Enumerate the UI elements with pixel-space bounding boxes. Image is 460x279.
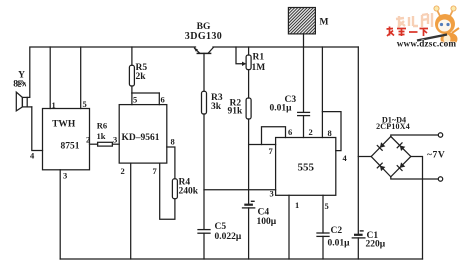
- microphone M: [288, 8, 315, 113]
- svg-text:C2: C2: [331, 226, 343, 236]
- label 8 ohm chinese glyph: [18, 81, 26, 86]
- svg-text:6: 6: [161, 95, 165, 105]
- svg-text:3: 3: [63, 171, 67, 181]
- svg-text:5: 5: [83, 99, 87, 109]
- capacitor C2 0.01u: [317, 233, 329, 259]
- wire AC bottom terminal: [391, 177, 439, 179]
- wire TWH pin 3 to bottom rail: [59, 170, 61, 259]
- IC U2 KD-9561 box: [119, 105, 167, 164]
- svg-text:2: 2: [121, 166, 125, 176]
- wire bottom rail: [60, 258, 422, 260]
- svg-text:KD–9561: KD–9561: [122, 133, 160, 143]
- svg-text:1k: 1k: [97, 131, 106, 141]
- wire KD pin 2 to bottom rail: [130, 163, 132, 259]
- resistor R4 240k: [167, 147, 178, 199]
- svg-text:2k: 2k: [136, 72, 147, 82]
- terminal circle top: [438, 133, 442, 137]
- diode D4 bottom-right: [397, 162, 405, 170]
- svg-text:3k: 3k: [211, 102, 222, 112]
- svg-text:4: 4: [343, 153, 348, 163]
- capacitor C3 0.01u: [298, 112, 310, 137]
- watermark red chinese text: [387, 27, 429, 37]
- diode D3 bottom-left: [377, 163, 385, 171]
- svg-text:555: 555: [297, 162, 314, 174]
- svg-text:0.01μ: 0.01μ: [328, 239, 351, 249]
- svg-text:3: 3: [113, 135, 117, 145]
- svg-text:1: 1: [52, 100, 56, 110]
- svg-text:1: 1: [295, 200, 299, 210]
- svg-text:6: 6: [288, 127, 292, 137]
- svg-text:TWH: TWH: [52, 120, 76, 130]
- svg-text:240k: 240k: [179, 187, 199, 197]
- wire bridge left vertex link: [358, 156, 371, 158]
- svg-text:R1: R1: [253, 53, 265, 63]
- wire KD pin5-pin6 loop: [131, 93, 133, 105]
- svg-text:5: 5: [325, 201, 329, 211]
- svg-text:1M: 1M: [252, 63, 266, 73]
- svg-text:R6: R6: [97, 121, 107, 131]
- IC U3 555 box: [276, 138, 336, 196]
- svg-text:100μ: 100μ: [257, 217, 277, 227]
- terminal circle bottom: [438, 177, 442, 181]
- wire TWH pin 1 to rail: [49, 47, 51, 109]
- svg-text:5: 5: [133, 95, 137, 105]
- speaker Y: [16, 92, 32, 111]
- svg-text:4: 4: [30, 151, 35, 161]
- svg-text:www.dzsc.com: www.dzsc.com: [397, 39, 457, 49]
- IC U1 TWH8751 box: [43, 109, 90, 170]
- svg-text:8751: 8751: [61, 142, 80, 152]
- wire top rail left segment: [30, 47, 196, 97]
- watermark faint orange text blobs: [396, 13, 432, 27]
- svg-text:~7V: ~7V: [427, 151, 445, 161]
- wire 555 pin 8 to rail: [321, 47, 323, 138]
- wire right supply vertical: [357, 47, 359, 234]
- svg-text:C5: C5: [215, 222, 227, 232]
- wire 555 pin 1 to bottom rail: [288, 195, 290, 259]
- resistor R2 91k: [246, 98, 251, 204]
- resistor R5 2k: [129, 47, 134, 93]
- pin number labels: [30, 95, 348, 212]
- wire 555 pin3 to R3 line: [204, 189, 276, 191]
- svg-text:7: 7: [269, 146, 274, 156]
- svg-text:2: 2: [86, 135, 90, 145]
- svg-text:0.022μ: 0.022μ: [215, 232, 242, 242]
- wire bridge right vertex to bottom rail: [411, 157, 423, 260]
- wire R2 bottom to 555 pin 7: [249, 144, 276, 146]
- diode D2 top-right: [397, 143, 405, 151]
- wire pin8 branch to pin 4: [322, 112, 341, 151]
- wire top rail right segment: [213, 46, 358, 48]
- capacitor C4 100u polarized: [243, 201, 255, 259]
- resistor R3 3k: [202, 91, 207, 229]
- wire KD pin 7 loop to R4: [160, 163, 175, 219]
- wire R1 to R2: [248, 70, 250, 98]
- transistor BG 3DG130: [194, 47, 214, 53]
- resistor R1 1M adjustable: [236, 47, 251, 70]
- svg-text:8: 8: [13, 80, 18, 90]
- wire TWH pin 5 to rail: [80, 47, 82, 109]
- svg-text:C4: C4: [258, 208, 270, 218]
- bridge rectifier D1-D4 diamond: [371, 137, 411, 177]
- wire speaker to TWH pin 4: [32, 107, 43, 151]
- resistor R6 1k: [90, 142, 120, 146]
- svg-text:3: 3: [270, 189, 274, 199]
- wire R1 top to rail junction: [248, 47, 250, 55]
- svg-text:2CP10X4: 2CP10X4: [376, 122, 410, 131]
- capacitor C5 0.022u: [198, 230, 210, 259]
- svg-text:3DG130: 3DG130: [185, 31, 222, 42]
- svg-text:Y: Y: [18, 71, 25, 81]
- svg-text:0.01μ: 0.01μ: [270, 104, 293, 114]
- svg-text:2: 2: [309, 127, 313, 137]
- svg-text:8: 8: [171, 137, 175, 147]
- watermark dzsc logo: [387, 6, 460, 49]
- watermark mascot: [417, 6, 459, 46]
- svg-text:M: M: [320, 18, 329, 28]
- wire AC top terminal: [391, 135, 439, 137]
- diode D1 top-left: [377, 142, 385, 150]
- wire 555 pin 5 to C2: [322, 195, 324, 233]
- svg-text:7: 7: [153, 166, 158, 176]
- svg-text:8: 8: [328, 128, 332, 138]
- svg-text:220μ: 220μ: [366, 240, 386, 250]
- svg-text:91k: 91k: [228, 107, 244, 117]
- capacitor C1 220u polarized: [352, 231, 365, 259]
- wire 555 pin6 loop: [262, 127, 286, 145]
- wire transistor base to R3: [203, 53, 205, 91]
